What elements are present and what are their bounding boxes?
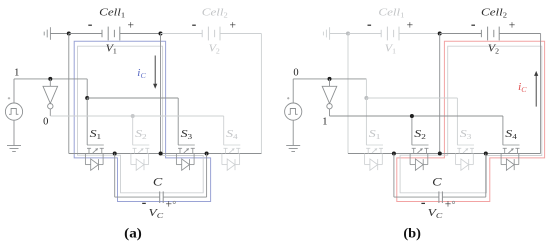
inverter U1 (gate signal inversion): [322, 79, 337, 116]
transistor S4 (MOSFET with body diode): [501, 145, 519, 170]
svg-text:iC: iC: [137, 67, 146, 80]
svg-text:(b): (b): [403, 227, 421, 242]
svg-text:0: 0: [43, 116, 48, 127]
junction on S2/S4 gate bus: [131, 114, 135, 118]
gate bus to S3: [366, 98, 457, 145]
label - (Cell1 negative): [368, 24, 372, 26]
junction node Q (capacitor right / S3-S4): [205, 152, 209, 156]
battery Cell1 (V1): [381, 27, 399, 41]
wire pulse source to ground: [13, 120, 15, 145]
svg-text:C: C: [153, 174, 164, 188]
label - (Cell2 negative): [192, 24, 196, 26]
junction node B on row (S2-S3): [159, 152, 163, 156]
wire pulse source to gate drive net: [14, 79, 87, 103]
svg-text:S4: S4: [505, 128, 517, 141]
transistor S4 (MOSFET with body diode): [222, 145, 240, 170]
transistor S3 (MOSFET with body diode): [456, 145, 474, 170]
inner light-gray loop (return path outline): [400, 46, 542, 193]
pulse voltage source: [5, 103, 22, 120]
junction on S1/S3 gate bus: [85, 96, 89, 100]
wire Cell2 positive to node C corner: [220, 34, 261, 154]
wire node A to Cell1 negative plate: [69, 33, 102, 35]
ground (below pulse source): [286, 146, 300, 152]
svg-text:Cell2: Cell2: [481, 6, 508, 19]
battery Cell2 (V2): [481, 27, 499, 41]
svg-text:Cell1: Cell1: [99, 6, 126, 19]
wire S1 gate lead: [86, 98, 88, 145]
transistor S2 (MOSFET with body diode): [410, 145, 428, 170]
svg-text:V1: V1: [106, 43, 118, 56]
ground (top-left, battery string reference): [44, 27, 50, 40]
highlighted current loop (blue, Cell1-S1-C-S3 path): [74, 41, 210, 201]
switch row wire (series S1-S2-S3-S4): [69, 153, 262, 155]
wire Cell2 positive to node C corner: [499, 34, 540, 154]
ground (below pulse source): [7, 146, 21, 152]
svg-text:V2: V2: [488, 43, 500, 56]
svg-text:S1: S1: [90, 128, 102, 141]
wire capacitor to node Q: [163, 154, 206, 198]
node A junction: [346, 32, 350, 36]
node B junction: [438, 32, 442, 36]
svg-text:0: 0: [293, 67, 298, 78]
wire node P down to capacitor: [115, 154, 160, 198]
wire node B down to switch row: [160, 34, 162, 154]
polarity mark + of pulse source: [8, 97, 10, 99]
junction node P (capacitor left / S1-S2): [113, 152, 117, 156]
inverter U1 (gate signal inversion): [43, 79, 58, 116]
svg-text:(a): (a): [124, 227, 142, 242]
wire drive net down to S1 gate: [365, 79, 367, 98]
pulse voltage source: [285, 103, 302, 120]
battery Cell1 (V1): [102, 27, 120, 41]
svg-text:Cell1: Cell1: [378, 6, 405, 19]
inverter output bus to S2 and S4 gates: [50, 116, 223, 145]
svg-text:+: +: [509, 19, 516, 31]
svg-text:V1: V1: [385, 43, 397, 56]
polarity mark of capacitor: [452, 201, 454, 203]
label - (Cell2 negative): [471, 24, 475, 26]
transistor S2 (MOSFET with body diode): [131, 145, 149, 170]
svg-text:iC: iC: [518, 81, 527, 94]
switch row wire (series S1-S2-S3-S4): [348, 153, 541, 155]
ground (top-left, battery string reference): [323, 27, 329, 40]
wire ground to node A: [330, 33, 348, 35]
wire node A down to switch row: [347, 34, 349, 154]
node A junction: [67, 32, 71, 36]
label - (capacitor negative): [142, 202, 146, 204]
junction at inverter input: [328, 77, 332, 81]
wire node A to Cell1 negative plate: [348, 33, 381, 35]
wire node P down to capacitor: [394, 154, 439, 198]
svg-text:+: +: [230, 19, 237, 31]
svg-text:S3: S3: [181, 128, 193, 141]
inverter output bus to S2 and S4 gates: [330, 116, 503, 145]
svg-text:1: 1: [14, 67, 19, 78]
svg-text:+: +: [407, 19, 414, 31]
wire node B to Cell2 negative plate: [440, 33, 482, 35]
wire Cell1 positive to node B: [399, 33, 440, 35]
svg-text:Cell2: Cell2: [202, 6, 229, 19]
svg-text:+: +: [166, 199, 173, 211]
junction on S2/S4 gate bus: [410, 114, 414, 118]
svg-text:1: 1: [322, 116, 327, 127]
junction on S1/S3 gate bus: [364, 96, 368, 100]
transistor S1 (MOSFET with body diode): [85, 145, 103, 170]
node B junction: [159, 32, 163, 36]
transistor S3 (MOSFET with body diode): [176, 145, 194, 170]
wire Cell1 positive to node B: [120, 33, 161, 35]
svg-text:VC: VC: [149, 207, 165, 220]
gate bus to S3: [87, 98, 178, 145]
battery Cell2 (V2): [202, 27, 220, 41]
svg-text:+: +: [127, 19, 134, 31]
label - (Cell1 negative): [88, 24, 92, 26]
inner light-gray loop (return path outline): [78, 46, 204, 193]
junction node P (capacitor left / S1-S2): [392, 152, 396, 156]
current arrow iC (upward): [534, 71, 538, 107]
svg-text:+: +: [445, 199, 452, 211]
wire node B to Cell2 negative plate: [161, 33, 203, 35]
svg-text:S2: S2: [414, 128, 426, 141]
svg-text:S1: S1: [369, 128, 381, 141]
wire node A down to switch row: [68, 34, 70, 154]
label - (capacitor negative): [421, 202, 425, 204]
svg-text:V2: V2: [209, 43, 221, 56]
junction node B on row (S2-S3): [438, 152, 442, 156]
transistor S1 (MOSFET with body diode): [365, 145, 383, 170]
wire S1 gate lead: [365, 98, 367, 145]
svg-text:C: C: [432, 174, 443, 188]
wire node B down to switch row: [439, 34, 441, 154]
svg-text:S4: S4: [226, 128, 238, 141]
capacitor C: [160, 191, 164, 203]
current arrow iC (downward): [153, 56, 157, 89]
wire ground to node A: [50, 33, 68, 35]
wire pulse source to ground: [292, 120, 294, 145]
capacitor C: [439, 191, 443, 203]
junction at inverter input: [48, 77, 52, 81]
wire capacitor to node Q: [442, 154, 485, 198]
junction node Q (capacitor right / S3-S4): [484, 152, 488, 156]
wire pulse source to gate drive net: [293, 79, 366, 103]
svg-text:S3: S3: [460, 128, 472, 141]
svg-text:S2: S2: [135, 128, 147, 141]
polarity mark of capacitor: [173, 201, 175, 203]
wire drive net down to S1 gate: [86, 79, 88, 98]
svg-text:VC: VC: [428, 207, 444, 220]
polarity mark + of pulse source: [287, 97, 289, 99]
highlighted current loop (red, Cell2-S2-C-S4 path): [397, 41, 545, 201]
